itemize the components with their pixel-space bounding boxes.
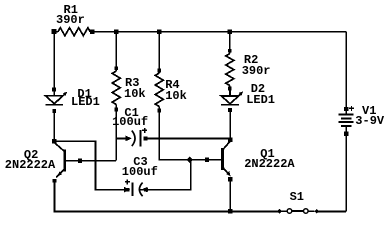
value 100uf of C3 [122, 166, 158, 178]
label Q1 [260, 148, 274, 160]
switch S1 [277, 209, 319, 214]
value 10k of R4 [165, 90, 187, 102]
wire Q2 collector to C3 left (riser) [54, 141, 125, 189]
label V1 [362, 105, 376, 117]
value LED1 of D1 [71, 96, 100, 108]
label Q2 [24, 149, 38, 161]
value 2N2222A of Q1 [244, 158, 294, 170]
resistor R3 [112, 32, 120, 112]
LED D1 [45, 88, 67, 113]
label R3 [125, 77, 139, 89]
label D2 [251, 83, 265, 95]
wire bottom rail left segment [54, 211, 280, 213]
junction top-left corner node [52, 29, 57, 34]
value 100uf of C1 [112, 116, 148, 128]
label C3 [133, 156, 147, 168]
capacitor C1 [116, 128, 147, 146]
transistor Q1 [205, 142, 232, 182]
label D1 [77, 88, 91, 100]
value 390r of R2 [242, 65, 271, 77]
wire C3 right to Q1 base node (riser) [148, 160, 191, 190]
resistor R2 [226, 32, 234, 91]
LED D2 [221, 89, 243, 112]
wire left column V+ to D1 [53, 32, 55, 89]
label S1 [290, 191, 304, 203]
node Q2 collector junction [52, 139, 56, 143]
wire battery minus to bottom rail [345, 134, 347, 212]
junction R3 top node [114, 30, 118, 34]
wire C1 plus to Q1 collector [145, 137, 230, 139]
junction R4 top node [157, 30, 161, 34]
resistor R1 [58, 28, 90, 36]
wire right rail V+ to battery [345, 32, 347, 109]
junction R2 top node [228, 30, 232, 34]
wire D2 cathode to Q1 collector [229, 110, 231, 141]
value LED1 of D2 [246, 94, 275, 106]
transistor Q2 [53, 143, 83, 183]
value 390r of R1 [56, 14, 85, 26]
wire R4 bottom to Q1 base [159, 111, 221, 160]
node Q1 collector junction [228, 138, 232, 142]
wire Q2 base to R3/C1 node [66, 160, 116, 162]
value 2N2222A of Q2 [5, 159, 55, 171]
wire R3 bottom to Q2 base node [115, 110, 117, 161]
wire Q2 emitter to bottom rail [53, 181, 55, 212]
node Q1 emitter / rail junction [228, 209, 232, 213]
node C3 / Q1 base junction [187, 157, 193, 163]
value 3-9V of V1 [355, 115, 384, 127]
capacitor C3 [124, 179, 148, 196]
label R1 [64, 4, 78, 16]
wire Q1 emitter to bottom rail [229, 179, 231, 211]
label R2 [244, 54, 258, 66]
wire D1 cathode to Q2 collector [53, 111, 55, 141]
value 10k of R3 [124, 88, 146, 100]
wire top rail V+ [54, 31, 346, 33]
resistor R4 [155, 32, 163, 113]
junction R1 right node [90, 30, 94, 34]
label C1 [124, 107, 138, 119]
battery V1 [339, 106, 354, 136]
wire bottom rail right segment [317, 211, 346, 213]
label R4 [165, 79, 179, 91]
